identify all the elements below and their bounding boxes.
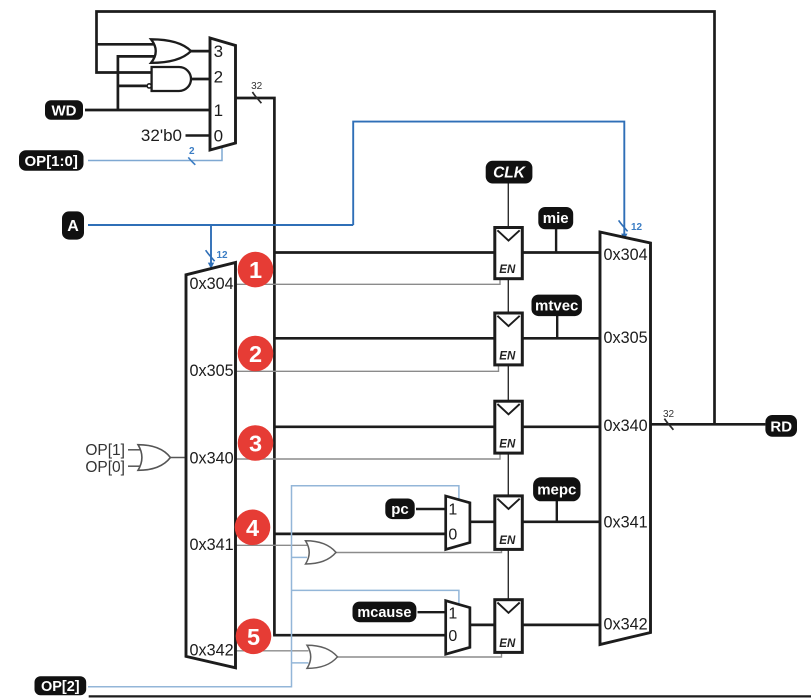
wire: OR gate G5 output to REG5 EN bbox=[336, 652, 502, 657]
callout 3 bbox=[238, 425, 274, 461]
register REG1 (mie) bbox=[495, 228, 523, 279]
port RD bbox=[765, 415, 797, 437]
register REG5 (mcause) bbox=[495, 600, 523, 653]
wire: enable row4 decoder to OR gate G4 bbox=[236, 544, 308, 546]
svg-text:2: 2 bbox=[249, 341, 262, 367]
wire: mcause to mux M3 input 1 bbox=[418, 611, 446, 613]
wire: enable row3 decoder to REG3 EN bbox=[236, 453, 501, 459]
register name mie bbox=[538, 207, 573, 229]
svg-text:mepc: mepc bbox=[537, 482, 576, 499]
wire: WD branch to gates bbox=[118, 56, 157, 110]
svg-text:3: 3 bbox=[249, 431, 262, 457]
wire: OP[2] stub to OR gate G4 bbox=[292, 556, 308, 558]
svg-text:OP[2]: OP[2] bbox=[41, 679, 80, 695]
wire: 32'b0 to mux M1 input 0 bbox=[186, 134, 211, 136]
wire: enable row1 decoder to REG1 EN bbox=[236, 279, 501, 284]
svg-text:OP[0]: OP[0] bbox=[85, 459, 125, 476]
mux M1 (write value select) bbox=[210, 38, 236, 150]
wire: mtvec label tick bbox=[556, 315, 558, 338]
OR gate G5 (row5 enable) bbox=[307, 645, 338, 668]
bus slash: 32 on RD output bbox=[664, 419, 673, 430]
svg-text:0x342: 0x342 bbox=[190, 642, 234, 660]
wire: mux M3 output to register REG5 D bbox=[470, 624, 495, 627]
svg-text:0x304: 0x304 bbox=[604, 246, 648, 264]
svg-text:1: 1 bbox=[249, 257, 262, 283]
read mux labels bbox=[604, 246, 648, 633]
svg-text:1: 1 bbox=[448, 605, 457, 622]
wire: OP[2] branch to mux M3 select bbox=[292, 590, 459, 606]
AND gate G2 input bubble bbox=[147, 84, 151, 88]
port OP[1:0] bbox=[19, 150, 84, 171]
svg-text:OP[1]: OP[1] bbox=[85, 442, 125, 459]
svg-text:EN: EN bbox=[499, 350, 516, 362]
wire: feedback to OR gate G1 input A bbox=[97, 43, 158, 46]
wire: CLK chain verticals bbox=[507, 183, 509, 600]
mux M1 pin labels 3,2,1,0 bbox=[214, 42, 223, 146]
mux M2 pin labels bbox=[448, 502, 457, 544]
wire: enable row2 decoder to REG2 EN bbox=[236, 365, 499, 372]
wire: register REG1 Q to read mux 0x304 bbox=[522, 251, 601, 254]
register name mtvec bbox=[532, 295, 582, 317]
svg-text:0x304: 0x304 bbox=[190, 275, 234, 293]
wire: write bus to register REG1 D bbox=[274, 251, 494, 254]
svg-text:A: A bbox=[67, 218, 79, 235]
wire: register REG4 Q to read mux 0x341 bbox=[522, 520, 601, 523]
svg-text:32: 32 bbox=[663, 409, 675, 420]
wire: A branch to write decoder bbox=[210, 225, 212, 265]
svg-text:12: 12 bbox=[631, 222, 643, 233]
register REG3 (0x340) bbox=[495, 401, 523, 453]
svg-text:0x305: 0x305 bbox=[604, 329, 648, 347]
OR gate G3 (OP[1]|OP[0]) bbox=[128, 445, 185, 471]
callout 4 bbox=[235, 510, 271, 546]
wire: pc to mux M2 input 1 bbox=[416, 508, 446, 510]
svg-text:0x341: 0x341 bbox=[604, 513, 648, 531]
callout 1 bbox=[238, 252, 274, 288]
svg-text:2: 2 bbox=[214, 68, 223, 87]
svg-text:1: 1 bbox=[214, 101, 223, 120]
arrowhead: A into write decoder bbox=[208, 263, 214, 269]
read mux trapezoid (right) bbox=[600, 232, 651, 645]
port WD bbox=[45, 100, 83, 120]
svg-text:0: 0 bbox=[448, 628, 457, 645]
register REG2 (mtvec) bbox=[495, 313, 523, 365]
node CLK bbox=[486, 161, 533, 184]
node mcause bbox=[353, 602, 417, 623]
svg-text:mcause: mcause bbox=[357, 605, 411, 621]
wire: enable row5 decoder to OR gate G5 bbox=[236, 650, 309, 652]
svg-text:0x340: 0x340 bbox=[190, 450, 234, 468]
wire: OR gate G1 output to mux M1 input 3 bbox=[188, 50, 210, 53]
wire: OP[1:0] select to mux M1 bbox=[88, 145, 222, 161]
wire: mie label tick bbox=[555, 228, 557, 252]
wire: A branch to read mux select bbox=[353, 122, 624, 236]
wire: mux M2 output to register REG4 D bbox=[470, 520, 495, 523]
svg-text:CLK: CLK bbox=[493, 165, 527, 182]
mux M2 (pc / write bus) bbox=[446, 496, 470, 549]
wire: bottom border line bbox=[89, 695, 811, 697]
wire: write bus to mux M3 input 0 bbox=[273, 634, 446, 637]
node pc bbox=[385, 499, 414, 520]
svg-text:mtvec: mtvec bbox=[535, 298, 578, 315]
svg-text:0x341: 0x341 bbox=[190, 536, 234, 554]
mux M3 pin labels bbox=[448, 605, 457, 645]
wire: write bus to mux M2 input 0 bbox=[274, 533, 445, 536]
wire: mepc label tick bbox=[556, 501, 558, 522]
svg-text:32'b0: 32'b0 bbox=[141, 126, 182, 145]
register name mepc bbox=[533, 477, 580, 501]
svg-text:0x342: 0x342 bbox=[604, 615, 648, 633]
port A bbox=[62, 211, 84, 239]
svg-text:2: 2 bbox=[189, 146, 195, 157]
svg-text:mie: mie bbox=[543, 210, 569, 227]
svg-text:0: 0 bbox=[448, 527, 457, 544]
wire: OP[2] net (blue) bbox=[88, 486, 459, 687]
svg-text:pc: pc bbox=[391, 501, 409, 518]
wire: A address bus (blue) bbox=[88, 224, 353, 226]
wire: register REG3 Q to read mux 0x340 bbox=[522, 425, 601, 428]
svg-text:0: 0 bbox=[214, 127, 223, 146]
svg-text:OP[1:0]: OP[1:0] bbox=[25, 153, 78, 170]
svg-text:EN: EN bbox=[499, 439, 516, 451]
svg-text:EN: EN bbox=[499, 638, 516, 650]
mux M3 (mcause / write bus) bbox=[446, 601, 470, 655]
svg-text:1: 1 bbox=[448, 502, 457, 519]
wire: OP[2] stub to OR gate G5 bbox=[292, 662, 309, 664]
bus slash: 2 on OP[1:0] select bbox=[188, 157, 195, 164]
AND gate G2 (clear logic) bbox=[152, 67, 191, 91]
callout 5 bbox=[236, 619, 272, 655]
svg-text:0x305: 0x305 bbox=[190, 362, 234, 380]
wire: AND gate G2 output to mux M1 input 2 bbox=[190, 78, 210, 81]
OR gate G1 (set logic) bbox=[151, 39, 191, 63]
callout 2 bbox=[238, 336, 274, 372]
bus slash: 12 on read mux address bbox=[619, 220, 628, 231]
port OP[2] bbox=[35, 676, 87, 695]
bus slash: 12 on write decoder address bbox=[206, 250, 215, 261]
wire: OR gate G4 output to REG4 EN bbox=[335, 549, 502, 553]
svg-text:32: 32 bbox=[251, 81, 263, 92]
wire: mux M1 output write bus (vertical) bbox=[236, 98, 275, 635]
OR gate G4 (row4 enable) bbox=[306, 541, 337, 564]
svg-text:5: 5 bbox=[247, 624, 260, 650]
wire: write bus to register REG2 D bbox=[274, 337, 494, 340]
wire: register REG2 Q to read mux 0x305 bbox=[522, 337, 601, 340]
svg-text:EN: EN bbox=[499, 264, 516, 276]
wire: RD feedback loop (top) bbox=[97, 12, 715, 425]
svg-text:EN: EN bbox=[499, 535, 516, 547]
wire: write bus to register REG3 D bbox=[274, 425, 494, 428]
svg-text:RD: RD bbox=[770, 418, 792, 435]
wire: WD to mux M1 input 1 bbox=[85, 109, 210, 112]
wire: read mux output to RD bbox=[651, 423, 766, 426]
svg-text:3: 3 bbox=[214, 42, 223, 61]
write decoder trapezoid (left) bbox=[186, 263, 236, 668]
svg-text:12: 12 bbox=[217, 250, 229, 261]
svg-text:WD: WD bbox=[52, 102, 77, 119]
svg-text:4: 4 bbox=[246, 515, 259, 541]
svg-text:0x340: 0x340 bbox=[604, 417, 648, 435]
register REG4 (mepc) bbox=[495, 496, 523, 550]
arrowhead: A into read mux bbox=[621, 234, 627, 240]
bus slash: 32 on mux M1 output bbox=[252, 92, 261, 103]
wire: WD inverted input to AND gate G2 bubble bbox=[118, 85, 147, 88]
write decoder labels bbox=[190, 275, 234, 660]
wire: register REG5 Q to read mux 0x342 bbox=[522, 624, 601, 627]
